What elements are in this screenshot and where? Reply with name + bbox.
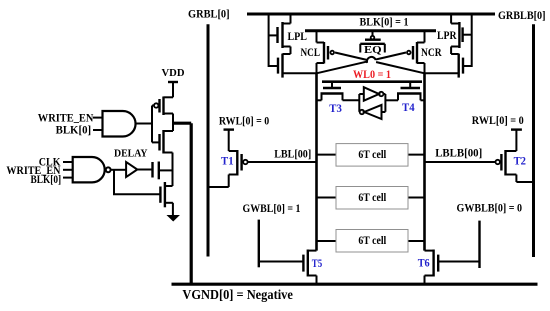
label NCR <box>421 45 442 59</box>
NAND gate U2 <box>73 157 126 182</box>
wire WL0 line <box>322 80 422 83</box>
label NCL <box>301 45 321 59</box>
svg-text:VGND[0] = Negative: VGND[0] = Negative <box>182 287 293 302</box>
label CLK (NAND input) <box>39 154 61 168</box>
wire LKL source to LBL junction <box>283 72 317 74</box>
wire 6T cell 1 taps <box>317 154 425 156</box>
transistor T5 (write NMOS) <box>303 250 316 285</box>
6T cell box 1 <box>336 144 408 167</box>
label WRITE_EN (NAND input) <box>6 163 60 177</box>
transistor LKR (keeper below LPR) <box>451 54 463 78</box>
label EQ <box>364 44 382 56</box>
wire T2 source to GRBLB <box>516 181 533 183</box>
wire T4 left to latch <box>385 99 398 101</box>
label LPR <box>437 28 457 42</box>
svg-text:WL0 = 1: WL0 = 1 <box>353 67 391 81</box>
label GRBLB[0] <box>498 8 546 22</box>
wire latch right node <box>384 94 386 112</box>
wire VGND rail <box>172 283 538 286</box>
svg-text:T4: T4 <box>402 100 415 114</box>
svg-text:BLK[0] = 1: BLK[0] = 1 <box>360 15 409 29</box>
wire cross-couple NCL-to-LBLB (diagonal) <box>335 53 425 74</box>
wire NAND to NMOS Q4 gate (feedback) <box>114 170 160 195</box>
svg-text:GWBL[0] = 1: GWBL[0] = 1 <box>243 201 301 215</box>
label LBL[00] <box>274 146 311 160</box>
label T3 <box>329 101 342 115</box>
wire latch left node <box>358 94 360 112</box>
label BLK[0] (NAND input) <box>31 172 62 186</box>
wire LPL gate line <box>269 16 278 67</box>
wire T1 source to GRBL <box>208 186 229 188</box>
transistor T3 (access) <box>321 82 344 101</box>
wire crossover hop <box>367 56 377 66</box>
svg-text:GRBLB[0]: GRBLB[0] <box>498 8 546 22</box>
wire BLK rail <box>305 29 436 32</box>
svg-text:LPR: LPR <box>437 28 457 42</box>
wire cross-couple NCR-to-LBL (diagonal) <box>317 53 407 74</box>
label GWBL[0] = 1 <box>243 201 301 215</box>
wire Q2 source to Q4 drain <box>172 153 174 187</box>
svg-text:EQ: EQ <box>364 44 382 56</box>
wire LBL[00] vertical <box>315 73 318 250</box>
wire LBLB[00] vertical <box>423 73 426 250</box>
wire GWBL to T5 gate <box>259 261 304 263</box>
svg-text:RWL[0] = 0: RWL[0] = 0 <box>219 114 269 128</box>
wire T3 right to latch <box>343 99 360 101</box>
label VGND[0] = Negative <box>182 287 293 302</box>
wire GWBL vertical <box>258 220 260 268</box>
transistor LPL <box>269 16 291 49</box>
transistor NCR <box>407 32 425 74</box>
inverter INV1 (latch top) <box>359 87 385 101</box>
6T cell box 3 <box>336 230 408 253</box>
wire top rail <box>247 13 495 16</box>
label BLK[0] (AND input) <box>56 123 92 137</box>
svg-text:LBLB[00]: LBLB[00] <box>435 145 482 159</box>
svg-text:GRBL[0]: GRBL[0] <box>188 6 230 20</box>
wire GRBLB[0] vertical <box>532 24 535 257</box>
svg-text:RWL[0] = 0: RWL[0] = 0 <box>472 113 524 127</box>
VDD terminal <box>168 82 178 97</box>
RWL terminal right <box>511 130 522 151</box>
label RWL[0] = 0 (right) <box>472 113 524 127</box>
svg-text:T5: T5 <box>312 256 322 270</box>
transistor LKL (keeper below LPL) <box>278 54 291 78</box>
wire LPR-LKR junction <box>450 47 452 55</box>
inverter INV2 (latch bottom) <box>359 105 385 119</box>
svg-text:T2: T2 <box>514 154 526 168</box>
label WRITE_EN (AND input) <box>38 110 94 124</box>
wire 6T cell 3 taps <box>317 240 425 242</box>
wire LPR gate line <box>463 16 472 67</box>
6T cell box 2 <box>336 187 408 210</box>
label DELAY <box>114 148 148 160</box>
transistor T6 (write NMOS) <box>425 250 439 285</box>
label GWBLB[0] = 0 <box>457 200 523 214</box>
svg-text:DELAY: DELAY <box>114 148 148 160</box>
label BLK[0] = 1 <box>360 15 409 29</box>
transistor NCL <box>317 32 335 74</box>
svg-text:T6: T6 <box>418 255 430 269</box>
svg-text:NCL: NCL <box>301 45 321 59</box>
transistor Q2 (NMOS, AND-driven) <box>152 130 173 154</box>
transistor Q4 (NMOS, NAND-driven) <box>160 182 173 216</box>
wire GWBLB vertical <box>478 221 480 268</box>
transistor Q1 (PMOS, AND-driven) <box>152 97 173 132</box>
label T2 <box>514 154 526 168</box>
ground <box>168 216 179 221</box>
AND gate U1 <box>93 111 152 137</box>
label T6 <box>418 255 430 269</box>
wire NAND input stubs <box>63 162 73 178</box>
wire 6T cell 2 taps <box>317 197 425 199</box>
svg-text:T3: T3 <box>329 101 342 115</box>
transistor T4 (access) <box>397 82 422 101</box>
label T4 <box>402 100 415 114</box>
svg-text:GWBLB[0] = 0: GWBLB[0] = 0 <box>457 200 523 214</box>
label VDD <box>162 68 185 79</box>
RWL terminal left <box>224 130 235 151</box>
label RWL[0] = 0 (left) <box>219 114 269 128</box>
wire write-driver output to VGND rail (thick) <box>190 123 193 284</box>
svg-text:BLK[0]: BLK[0] <box>31 172 62 186</box>
svg-text:VDD: VDD <box>162 68 185 79</box>
delay buffer U3 <box>126 162 152 177</box>
transistor T1 (PMOS read) <box>229 150 317 187</box>
svg-text:BLK[0]: BLK[0] <box>56 123 92 137</box>
wire T3 left to LBL <box>317 99 322 101</box>
wire AND output gate line <box>151 106 153 143</box>
svg-text:LBL[00]: LBL[00] <box>274 146 311 160</box>
wire LPL-LKL junction <box>290 47 292 55</box>
label LBLB[00] <box>435 145 482 159</box>
svg-text:6T cell: 6T cell <box>358 192 386 204</box>
transistor Q3 (NMOS, DELAY-driven) <box>153 162 173 180</box>
node write-driver output (thick) <box>172 122 191 125</box>
label GRBL[0] <box>188 6 230 20</box>
svg-text:6T cell: 6T cell <box>358 149 386 161</box>
wire GRBL[0] vertical <box>207 24 210 256</box>
svg-text:NCR: NCR <box>421 45 442 59</box>
label LPL <box>288 29 308 43</box>
label T1 <box>221 154 234 168</box>
label T5 <box>312 256 322 270</box>
wire T4 right to LBLB <box>421 99 425 101</box>
transistor LPR <box>451 16 472 49</box>
wire LKR source to LBLB junction <box>425 72 459 74</box>
transistor EQ (equalizer PMOS) <box>360 32 385 53</box>
svg-text:T1: T1 <box>221 154 234 168</box>
svg-text:LPL: LPL <box>288 29 308 43</box>
label WL0 = 1 <box>353 67 391 81</box>
transistor T2 (PMOS read) <box>425 150 517 182</box>
wire GWBLB to T6 gate <box>438 261 479 263</box>
svg-text:6T cell: 6T cell <box>358 235 386 247</box>
